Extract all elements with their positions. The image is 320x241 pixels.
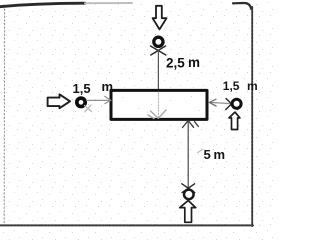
faint cross below left circle	[85, 105, 92, 112]
application point circle top	[154, 37, 163, 46]
frame top border fading part	[85, 2, 132, 4]
svg-text:5: 5	[204, 147, 211, 162]
left dimension arrowhead at beam	[105, 96, 111, 103]
frame top border right corner hook	[233, 3, 251, 9]
application point circle bottom	[184, 190, 194, 200]
arrowhead pointing up at beam bottom	[183, 121, 199, 128]
svg-text:m: m	[188, 55, 200, 70]
faint tick near 5 m	[198, 150, 204, 153]
svg-text:m: m	[102, 79, 114, 94]
frame bottom border	[0, 224, 253, 226]
right dimension arrowhead at beam	[209, 99, 216, 106]
wire from top point to beam	[157, 50, 159, 90]
reaction arrow right (hollow, pointing up)	[229, 112, 240, 129]
faint wire through beam	[157, 92, 159, 118]
dimension line right 1,5	[210, 102, 232, 103]
application point circle left	[77, 98, 85, 106]
reaction arrow bottom (hollow, pointing up)	[180, 201, 196, 223]
svg-text:1,5: 1,5	[223, 79, 240, 93]
specks inside beam	[122, 96, 200, 111]
svg-text:m: m	[214, 147, 226, 162]
frame top border left dark part	[0, 3, 85, 6]
cross X at right circle	[226, 99, 238, 110]
faint arrowhead inside beam	[148, 110, 166, 119]
application point circle right	[232, 99, 241, 108]
cross X above lower circle	[182, 184, 195, 193]
frame left border	[3, 9, 5, 224]
dimension line left 1,5 m	[87, 99, 111, 101]
force arrow left (hollow, pointing right)	[48, 94, 70, 108]
force arrow top (hollow, pointing down)	[153, 6, 167, 30]
beam rectangle	[111, 90, 207, 119]
wire from beam bottom to lower point	[187, 121, 189, 190]
cross X below top circle	[151, 46, 166, 55]
svg-text:2,5: 2,5	[166, 55, 185, 70]
svg-text:1,5: 1,5	[73, 81, 91, 96]
frame right border	[251, 7, 253, 226]
svg-text:m: m	[247, 79, 258, 93]
